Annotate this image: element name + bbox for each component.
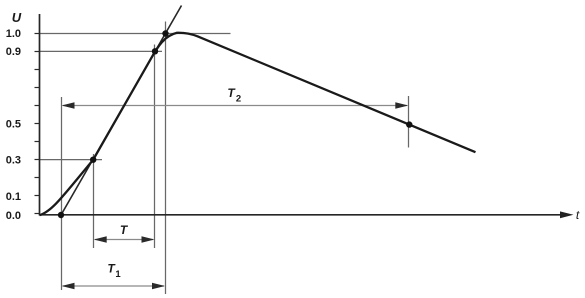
svg-text:T: T [120,223,129,237]
svg-text:0.1: 0.1 [6,191,21,203]
svg-text:0.3: 0.3 [6,155,21,167]
svg-text:1.0: 1.0 [6,28,21,40]
svg-text:1: 1 [115,269,121,280]
svg-text:t: t [576,208,580,222]
svg-text:2: 2 [236,94,241,105]
svg-text:0.5: 0.5 [6,119,21,131]
svg-text:U: U [12,10,22,25]
svg-text:0.0: 0.0 [6,210,21,222]
svg-text:0.9: 0.9 [6,46,21,58]
